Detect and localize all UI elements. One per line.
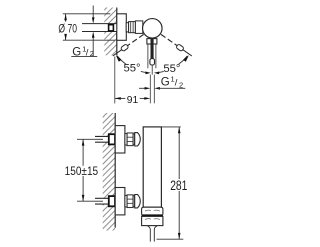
svg-text:/: / — [86, 47, 89, 58]
svg-text:150±15: 150±15 — [65, 164, 99, 178]
svg-text:Ø 70: Ø 70 — [58, 22, 77, 36]
svg-text:G: G — [72, 46, 81, 58]
svg-text:281: 281 — [170, 177, 187, 193]
svg-text:2: 2 — [179, 80, 183, 89]
svg-text:91: 91 — [127, 95, 139, 106]
svg-text:2: 2 — [90, 49, 94, 58]
svg-text:G: G — [161, 76, 170, 88]
svg-text:55°: 55° — [123, 63, 140, 75]
svg-text:55°: 55° — [163, 63, 180, 75]
svg-text:/: / — [175, 77, 178, 88]
